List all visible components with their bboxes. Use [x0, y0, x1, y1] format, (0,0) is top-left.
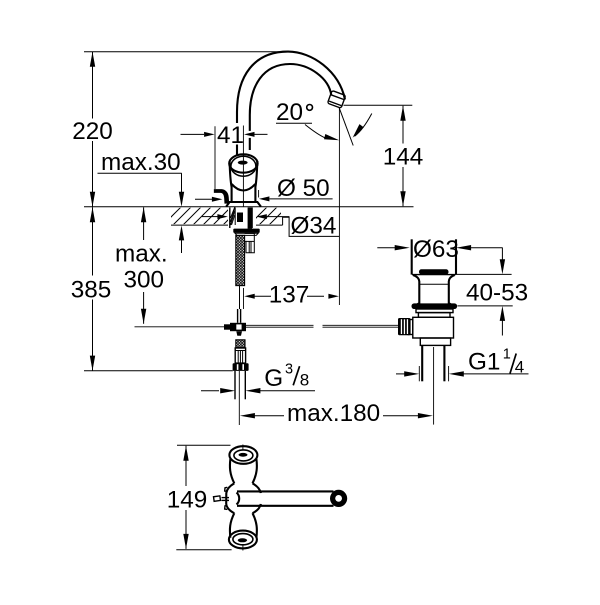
plan: top cone sides — [230, 459, 234, 484]
plan: body — [226, 483, 234, 513]
supply nut — [233, 363, 249, 371]
dimension Ø34: arrows — [202, 216, 218, 218]
drain pull lever — [214, 190, 228, 204]
aerator at spout tip — [327, 91, 345, 109]
dimension 149 — [183, 446, 188, 461]
plan: lever knob — [214, 496, 221, 501]
handle inner ellipse — [231, 156, 256, 176]
svg-text:max.180: max.180 — [287, 400, 380, 427]
plan: center ticks — [242, 445, 244, 451]
drain neck — [413, 275, 419, 306]
dimension Ø50: ext stub — [258, 190, 260, 198]
pipe centerline (max.180 left extension) — [238, 371, 240, 425]
hose lower line — [239, 286, 241, 309]
deck hatching left — [162, 206, 242, 226]
braided flex hose — [236, 235, 245, 285]
dimension 41: lines and arrows — [181, 133, 205, 135]
spout tip vertical extension line — [338, 107, 340, 305]
drain cup — [411, 239, 413, 274]
coupling nut — [420, 338, 450, 345]
svg-text:300: 300 — [124, 267, 165, 294]
svg-text:144: 144 — [383, 144, 424, 171]
dimension max.300 — [141, 207, 146, 222]
svg-text:max.30: max.30 — [101, 149, 181, 176]
deck right step to label — [283, 217, 290, 225]
plan: bottom handle — [229, 531, 257, 549]
lower braided section — [236, 340, 245, 348]
dimension 220 — [90, 52, 95, 67]
Ø34 label notch box — [289, 216, 339, 236]
149 top extension line — [177, 444, 231, 446]
angle leader arcs — [305, 125, 328, 140]
deck hatching right — [248, 206, 288, 226]
drain: Ø63 dimension lines — [377, 247, 400, 249]
side port boss — [408, 320, 413, 335]
plan: left bumps — [225, 487, 228, 491]
svg-text:3: 3 — [285, 361, 293, 377]
pop-up horizontal rod — [246, 324, 314, 326]
svg-text:max.: max. — [115, 241, 168, 268]
20 degree reference slanted line — [339, 107, 353, 145]
hose small tube above tee — [237, 309, 239, 323]
threaded shank in deck hole — [230, 207, 252, 229]
149 bottom extension line — [176, 549, 231, 551]
svg-text:385: 385 — [71, 277, 112, 304]
tailpipe — [421, 345, 423, 381]
dimension G3/8: arrows — [201, 390, 219, 392]
svg-text:20: 20 — [276, 99, 303, 126]
dimension 385 — [90, 207, 95, 222]
locknut bevel — [235, 233, 258, 235]
drain centerline — [433, 347, 435, 425]
svg-text:220: 220 — [72, 118, 113, 145]
spout outer curve — [237, 52, 345, 155]
svg-text:149: 149 — [167, 487, 208, 514]
locknut under deck — [233, 229, 259, 233]
dimension 40-53 — [501, 248, 503, 263]
top extension line (spout max height) — [84, 51, 283, 53]
deck top line — [84, 206, 414, 208]
pop-up plug cap — [419, 269, 449, 274]
svg-text:40-53: 40-53 — [466, 280, 528, 307]
escutcheon — [226, 202, 261, 207]
svg-text:Ø34: Ø34 — [291, 213, 337, 240]
dimension 144: top extension line — [344, 104, 413, 106]
dimension 41: text — [219, 123, 242, 145]
pop-up rod housing right of hose — [245, 233, 255, 252]
plan: spout end annulus — [333, 492, 345, 504]
svg-text:Ø 50: Ø 50 — [277, 175, 330, 202]
svg-text:41: 41 — [217, 122, 244, 149]
dimension 41: extension line — [214, 126, 216, 189]
svg-text:8: 8 — [300, 371, 309, 390]
G3/8 pipe end — [234, 371, 236, 399]
deck bottom line — [171, 224, 228, 226]
svg-text:4: 4 — [515, 358, 524, 377]
tee fitting — [230, 323, 246, 331]
body bottom arc — [232, 184, 256, 191]
supply connector fitting — [235, 348, 245, 363]
svg-text:G1: G1 — [468, 348, 500, 375]
spout inner curve — [250, 64, 331, 150]
centerline of faucet axis — [242, 126, 244, 207]
valve body — [413, 317, 454, 338]
dimension 144 — [400, 106, 405, 121]
plan: bottom cone sides — [230, 513, 234, 538]
thread extension stubs — [418, 366, 420, 381]
plan: spout tube — [237, 490, 334, 492]
handle white mask — [229, 154, 257, 202]
below-seal plate — [416, 309, 453, 313]
dimension 137 — [243, 288, 245, 309]
handle cone right side — [255, 161, 257, 202]
seal ring — [412, 303, 458, 309]
385 bottom extension line — [84, 370, 233, 372]
handle cone left side — [230, 162, 232, 203]
dimension max.180 — [240, 413, 255, 418]
dimension Ø50: arrows and label line — [195, 198, 212, 200]
dimension 40-53: top extension line — [456, 273, 512, 275]
svg-text:G: G — [264, 365, 283, 392]
dimension 40-53: bottom extension line — [457, 305, 512, 307]
handle dark slot — [238, 161, 248, 165]
plan: top handle — [229, 446, 257, 464]
svg-text:137: 137 — [269, 282, 310, 309]
pop-up rod left stub — [135, 326, 225, 328]
svg-text:1: 1 — [503, 347, 511, 363]
handle top ellipse — [229, 154, 257, 172]
knurled knob — [398, 318, 411, 335]
svg-text:Ø63: Ø63 — [413, 236, 459, 263]
dimension G1 1/4 — [396, 373, 410, 375]
